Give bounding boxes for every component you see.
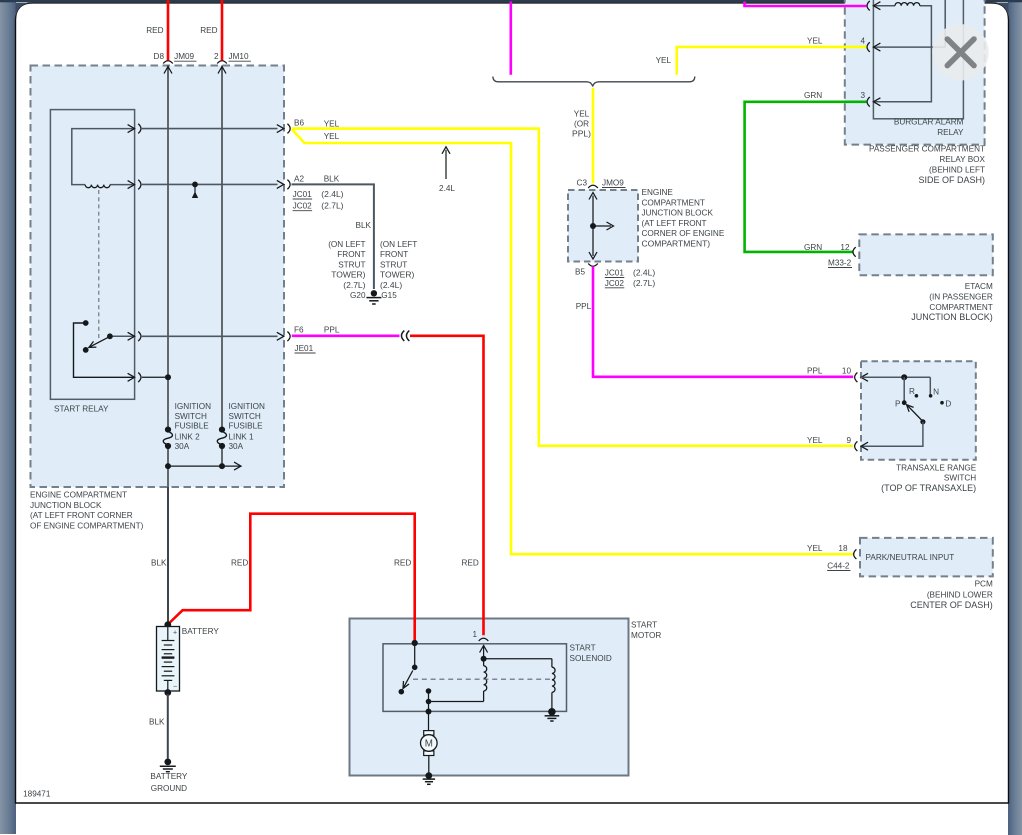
svg-text:JE01: JE01 — [295, 344, 314, 353]
relay pin arrow 4 — [873, 43, 880, 51]
svg-text:LINK 1: LINK 1 — [229, 433, 254, 442]
relay K1 START RELAY box — [50, 110, 134, 400]
transaxle pin10 wire — [861, 376, 930, 378]
wire BLK battery to ground — [167, 694, 169, 759]
svg-text:P: P — [895, 400, 901, 409]
svg-text:IGNITION: IGNITION — [175, 402, 211, 411]
svg-text:1: 1 — [472, 630, 477, 639]
connector arc relay pin4 — [867, 42, 870, 52]
svg-text:COMPARTMENT: COMPARTMENT — [642, 198, 705, 207]
svg-text:FUSIBLE: FUSIBLE — [175, 422, 210, 431]
wire RED solenoid trigger — [410, 336, 484, 636]
svg-text:2.4L: 2.4L — [439, 184, 455, 193]
svg-text:TOWER): TOWER) — [331, 270, 365, 280]
svg-text:ENGINE: ENGINE — [642, 188, 674, 197]
svg-text:BATTERY: BATTERY — [150, 772, 188, 781]
wire row1 to B6 — [142, 128, 278, 130]
svg-text:(ON LEFT: (ON LEFT — [380, 240, 417, 249]
svg-text:YEL: YEL — [324, 120, 340, 129]
svg-text:PPL: PPL — [576, 302, 592, 311]
svg-text:D: D — [945, 400, 951, 409]
svg-text:(2.7L): (2.7L) — [321, 201, 343, 211]
svg-text:YEL: YEL — [656, 56, 672, 65]
svg-text:COMPARTMENT): COMPARTMENT) — [642, 239, 711, 249]
relay pin arrow ppl — [873, 2, 880, 10]
svg-text:STRUT: STRUT — [338, 260, 365, 269]
svg-text:(OR: (OR — [574, 119, 589, 128]
page left border strip — [0, 0, 16, 834]
burglar alarm relay coil — [895, 3, 920, 6]
transaxle switch arm — [908, 406, 922, 420]
svg-text:(2.4L): (2.4L) — [321, 189, 343, 199]
svg-text:RED: RED — [462, 559, 479, 568]
solenoid switch feed wire — [414, 644, 416, 665]
svg-text:F6: F6 — [294, 325, 304, 334]
fusible link 1 symbol — [219, 427, 225, 433]
relay K1 pin connector row 4 — [138, 373, 141, 383]
arrow F6 — [277, 332, 284, 340]
svg-text:JC01: JC01 — [293, 190, 313, 199]
arrow transaxle pin9 — [861, 442, 868, 450]
arrow feed 2 — [218, 67, 226, 74]
relay K1 switch pivot — [107, 333, 113, 339]
svg-text:FRONT: FRONT — [380, 250, 408, 259]
solenoid ground — [548, 708, 556, 716]
svg-text:G15: G15 — [381, 291, 397, 300]
svg-text:PPL): PPL) — [572, 129, 591, 139]
svg-text:JM09: JM09 — [174, 52, 194, 61]
inline connector arcs — [401, 331, 409, 341]
svg-text:SWITCH: SWITCH — [944, 474, 976, 483]
solenoid pin1 wire — [483, 646, 485, 659]
svg-text:(BEHIND LOWER: (BEHIND LOWER — [927, 590, 993, 599]
svg-text:(AT LEFT FRONT: (AT LEFT FRONT — [642, 219, 707, 228]
svg-text:(IN PASSENGER: (IN PASSENGER — [929, 293, 993, 302]
relay K1 actuation dashed link — [98, 190, 100, 338]
svg-text:(2.4L): (2.4L) — [633, 268, 655, 278]
burglar alarm relay switch wire — [873, 0, 945, 47]
solenoid switch arm — [404, 671, 413, 688]
svg-text:YEL: YEL — [324, 132, 340, 141]
svg-text:PPL: PPL — [324, 326, 340, 335]
svg-text:18: 18 — [838, 544, 848, 553]
connector F6 arc — [287, 332, 290, 342]
svg-text:COMPARTMENT: COMPARTMENT — [929, 303, 992, 312]
wire BLK junction block to battery — [167, 487, 169, 623]
svg-text:STRUT: STRUT — [380, 260, 407, 269]
page top navy bar — [0, 0, 1022, 2]
relay K1 pin connector row 2 — [138, 180, 141, 190]
wire row4 stub — [142, 376, 168, 378]
connector arc ETACM pin12 — [853, 247, 856, 257]
wire feed 1 lower — [167, 446, 169, 487]
svg-text:3: 3 — [860, 91, 865, 100]
svg-text:GROUND: GROUND — [151, 784, 187, 793]
svg-text:G20: G20 — [350, 291, 366, 300]
relay K1 pin arrow row 3 — [128, 332, 135, 340]
svg-text:RED: RED — [200, 26, 217, 35]
svg-text:189471: 189471 — [23, 790, 51, 799]
svg-text:START: START — [570, 644, 596, 653]
junction dot feed2-bar — [219, 463, 225, 469]
svg-text:PCM: PCM — [975, 580, 993, 589]
relay K1 pin arrow row 4 — [128, 373, 135, 381]
svg-text:JUNCTION BLOCK): JUNCTION BLOCK) — [911, 312, 993, 322]
arrow transaxle pin10 — [861, 373, 868, 381]
svg-text:SIDE OF DASH): SIDE OF DASH) — [918, 175, 985, 185]
wire PPL from top — [509, 2, 512, 75]
svg-text:CENTER OF DASH): CENTER OF DASH) — [910, 600, 993, 610]
wire to motor — [426, 709, 432, 715]
wire PPL from F6 — [292, 334, 400, 337]
svg-text:YEL: YEL — [807, 37, 823, 46]
svg-text:30A: 30A — [175, 442, 190, 451]
battery top junction dot — [164, 621, 171, 628]
solenoid feed junction dot — [412, 640, 418, 646]
svg-text:BLK: BLK — [151, 559, 167, 568]
ETACM box — [859, 234, 993, 275]
svg-text:+: + — [173, 629, 177, 636]
svg-text:YEL: YEL — [574, 109, 590, 118]
connector JM09 arc — [163, 61, 173, 64]
svg-text:D8: D8 — [154, 52, 165, 61]
burglar alarm relay coil wire — [873, 6, 931, 102]
svg-text:C44-2: C44-2 — [827, 562, 850, 571]
wire RED battery to solenoid — [169, 514, 415, 642]
motor ground — [425, 772, 432, 779]
arrow junction bar — [234, 462, 241, 470]
solenoid linkage dashed — [413, 678, 552, 680]
svg-text:JUNCTION BLOCK: JUNCTION BLOCK — [642, 209, 714, 218]
connector A2 arc — [287, 180, 290, 190]
ground G20/G15 symbol — [371, 290, 377, 296]
motor ground wire — [428, 756, 430, 776]
annotation 2.4L arrow — [445, 150, 447, 179]
wire YEL B6 to transaxle pin9 — [292, 129, 853, 446]
svg-text:ETACM: ETACM — [965, 282, 993, 291]
relay pin arrow 3 — [873, 98, 880, 106]
svg-text:12: 12 — [840, 243, 850, 252]
start motor box — [350, 619, 629, 776]
svg-text:B5: B5 — [575, 268, 585, 277]
relay K1 switch pivot wire — [110, 335, 135, 337]
connector B5 arc — [588, 264, 598, 267]
svg-text:BURGLAR ALARM: BURGLAR ALARM — [894, 118, 964, 127]
svg-text:FRONT: FRONT — [337, 250, 365, 259]
svg-text:START: START — [631, 621, 657, 630]
arrow feed 1 — [164, 67, 172, 74]
relay K1 switch arm — [90, 337, 109, 347]
relay K1 coil — [85, 185, 110, 188]
svg-text:−: − — [173, 683, 177, 690]
junction block 2 internal arrows — [592, 196, 594, 257]
wire feed 2 lower — [221, 446, 223, 466]
transaxle junction dot — [901, 374, 907, 380]
svg-text:C3: C3 — [577, 179, 588, 188]
svg-text:(TOP OF TRANSAXLE): (TOP OF TRANSAXLE) — [881, 483, 976, 493]
svg-text:OF ENGINE COMPARTMENT): OF ENGINE COMPARTMENT) — [30, 521, 144, 530]
arrow solenoid pin1 — [480, 646, 488, 653]
wire row3 to F6 — [142, 335, 278, 337]
battery ground symbol — [164, 759, 171, 766]
wire row2 to A2 — [142, 183, 278, 185]
engine compartment junction block 2 box — [568, 190, 638, 262]
wire BLK from A2 — [292, 184, 374, 289]
passenger compartment relay box — [845, 0, 985, 145]
connector arc PCM pin18 — [854, 549, 857, 559]
svg-text:JUNCTION BLOCK: JUNCTION BLOCK — [30, 501, 102, 510]
wire PPL B5 to transaxle — [593, 266, 853, 377]
svg-text:M33-2: M33-2 — [828, 259, 852, 268]
svg-text:RELAY: RELAY — [937, 128, 964, 137]
svg-text:9: 9 — [846, 436, 851, 445]
svg-text:(BEHIND LEFT: (BEHIND LEFT — [929, 166, 985, 175]
svg-text:2: 2 — [214, 52, 219, 61]
fusible link 2 symbol — [165, 427, 171, 433]
relay K1 coil circuit wire — [72, 129, 135, 185]
svg-text:SWITCH: SWITCH — [175, 412, 207, 421]
svg-text:RED: RED — [394, 559, 411, 568]
svg-text:SWITCH: SWITCH — [229, 412, 261, 421]
transaxle P branch — [903, 377, 905, 400]
svg-text:FUSIBLE: FUSIBLE — [229, 422, 264, 431]
wire GRN relay pin3 to ETACM — [745, 102, 867, 252]
svg-text:GRN: GRN — [804, 91, 822, 100]
svg-text:(2.7L): (2.7L) — [343, 280, 365, 290]
close button — [932, 24, 988, 80]
connector arc transaxle pin9 — [855, 441, 858, 451]
connector arc solenoid pin1 — [479, 638, 489, 641]
junction dot feed1-bar — [165, 463, 171, 469]
wire RED supply 1 — [167, 0, 170, 61]
wire YEL B6 to PCM pin18 — [292, 129, 853, 554]
wire ignition feed 1 vertical — [167, 66, 169, 430]
corner wedge top-left — [16, 3, 33, 21]
connector arc transaxle pin10 — [855, 373, 858, 383]
corner wedge top-right — [992, 3, 1009, 21]
connector JM10 arc — [217, 61, 227, 64]
svg-text:30A: 30A — [229, 442, 244, 451]
relay K1 switch fixed contact — [83, 320, 89, 326]
svg-text:IGNITION: IGNITION — [229, 402, 265, 411]
svg-text:PASSENGER COMPARTMENT: PASSENGER COMPARTMENT — [869, 145, 985, 154]
svg-text:PARK/NEUTRAL INPUT: PARK/NEUTRAL INPUT — [866, 553, 955, 562]
PCM box — [860, 538, 993, 577]
svg-text:JMO9: JMO9 — [602, 179, 624, 188]
svg-text:10: 10 — [842, 366, 852, 375]
svg-text:BLK: BLK — [149, 718, 165, 727]
svg-text:(ON LEFT: (ON LEFT — [328, 240, 365, 249]
svg-text:TRANSAXLE RANGE: TRANSAXLE RANGE — [896, 463, 977, 472]
wire PPL to burglar relay — [745, 2, 867, 7]
relay K1 switch open contact — [83, 347, 89, 353]
svg-text:BLK: BLK — [324, 174, 340, 183]
svg-text:YEL: YEL — [807, 544, 823, 553]
motor M symbol — [424, 731, 434, 736]
junction dot row4-feed1 — [165, 374, 171, 380]
relay K1 pin connector row 3 — [138, 332, 141, 342]
svg-text:N: N — [933, 388, 939, 397]
wire junction bar — [168, 465, 240, 467]
relay K1 pin connector row 1 — [138, 124, 141, 134]
solenoid pull-in coil — [483, 659, 485, 666]
svg-text:JC02: JC02 — [293, 202, 313, 211]
svg-text:SOLENOID: SOLENOID — [570, 654, 612, 663]
svg-text:GRN: GRN — [804, 243, 822, 252]
svg-text:B6: B6 — [294, 119, 304, 128]
solenoid contact junction — [426, 699, 432, 705]
svg-text:RELAY BOX: RELAY BOX — [939, 155, 985, 164]
wire ignition feed 2 vertical — [221, 66, 223, 430]
connector C3 arc — [588, 185, 598, 188]
transaxle N branch — [929, 377, 931, 396]
arrow B6 — [277, 125, 284, 133]
svg-text:A2: A2 — [294, 174, 304, 183]
branch stub on A2 wire — [192, 182, 198, 188]
wire YEL to burglar relay pin4 — [677, 47, 867, 75]
svg-text:RED: RED — [146, 26, 163, 35]
solenoid moving contact — [426, 688, 432, 694]
svg-text:CORNER OF ENGINE: CORNER OF ENGINE — [642, 229, 725, 238]
relay K1 switch common wire — [74, 323, 135, 377]
transaxle pin9 wire — [861, 422, 923, 446]
svg-text:(2.4L): (2.4L) — [380, 280, 402, 290]
svg-text:TOWER): TOWER) — [380, 270, 414, 280]
solenoid hold-in coil wire — [484, 658, 552, 660]
svg-text:MOTOR: MOTOR — [631, 631, 661, 640]
page right border strip — [1008, 0, 1022, 835]
svg-text:BLK: BLK — [356, 221, 372, 230]
inline connector backing — [400, 329, 411, 343]
connector arc relay pin3 — [867, 97, 870, 107]
split brace — [493, 77, 695, 87]
arrow A2 — [277, 180, 284, 188]
burglar alarm relay box — [873, 0, 963, 119]
svg-text:M: M — [425, 738, 433, 749]
svg-text:4: 4 — [860, 37, 865, 46]
svg-text:START RELAY: START RELAY — [54, 405, 109, 414]
svg-text:LINK 2: LINK 2 — [175, 433, 200, 442]
svg-text:R: R — [909, 387, 915, 396]
svg-text:JM10: JM10 — [229, 52, 249, 61]
svg-text:BATTERY: BATTERY — [182, 627, 220, 636]
connector arc relay ppl — [867, 1, 870, 11]
svg-text:(2.7L): (2.7L) — [633, 278, 655, 288]
svg-text:JC02: JC02 — [605, 279, 625, 288]
connector B6 arc — [287, 124, 290, 134]
start solenoid box — [383, 644, 567, 712]
svg-text:PPL: PPL — [807, 366, 823, 375]
svg-text:ENGINE COMPARTMENT: ENGINE COMPARTMENT — [30, 491, 127, 500]
relay K1 pin arrow row 2 — [128, 181, 135, 189]
engine compartment junction block box — [31, 66, 285, 488]
battery plates — [167, 627, 169, 641]
relay K1 pin arrow row 1 — [128, 125, 135, 133]
wire RED supply 2 — [221, 0, 224, 61]
transaxle range switch box — [861, 361, 976, 460]
svg-text:RED: RED — [231, 559, 248, 568]
battery bottom dot — [164, 689, 171, 696]
svg-text:YEL: YEL — [807, 436, 823, 445]
battery BT1 box — [157, 627, 180, 692]
svg-text:JC01: JC01 — [605, 269, 625, 278]
svg-text:(AT LEFT FRONT CORNER: (AT LEFT FRONT CORNER — [30, 511, 133, 520]
wire YEL brace to C3 — [592, 88, 595, 183]
